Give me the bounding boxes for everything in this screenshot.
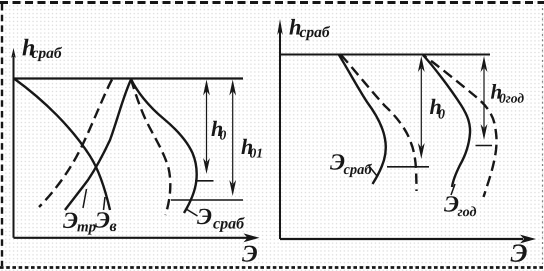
svg-text:0: 0 — [438, 108, 445, 123]
svg-text:0: 0 — [219, 127, 226, 142]
svg-text:0год: 0год — [499, 91, 524, 106]
svg-text:Э: Э — [63, 208, 78, 233]
svg-text:сраб: сраб — [300, 24, 331, 41]
svg-text:тр: тр — [77, 219, 97, 235]
svg-text:сраб: сраб — [213, 215, 245, 232]
svg-text:Э: Э — [95, 207, 110, 232]
svg-text:Э: Э — [242, 241, 258, 267]
svg-text:Э: Э — [510, 239, 527, 268]
svg-text:год: год — [457, 205, 476, 220]
svg-text:сраб: сраб — [343, 162, 372, 178]
svg-text:01: 01 — [249, 145, 263, 160]
svg-text:в: в — [109, 218, 116, 235]
svg-text:сраб: сраб — [32, 45, 63, 62]
svg-text:Э: Э — [197, 204, 212, 229]
